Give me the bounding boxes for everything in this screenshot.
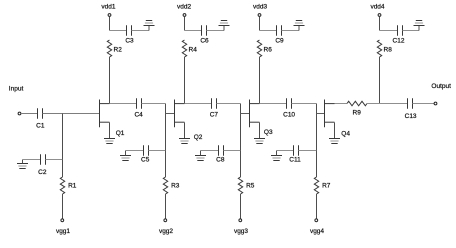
junction interstage node 1 vertical wire <box>165 104 167 151</box>
ground for C12 <box>414 21 425 26</box>
svg-text:vdd3: vdd3 <box>253 3 267 10</box>
wire C13 to output terminal <box>413 103 435 105</box>
wire vdd2 to node <box>184 17 186 31</box>
wire jog to Q3 gate <box>241 113 250 115</box>
wire jog to Q4 gate <box>317 113 325 115</box>
ground for C3 <box>144 21 155 26</box>
wire Q4 source drop <box>334 123 336 139</box>
wire ground stub C5 <box>125 151 127 156</box>
junction gate node 1 vertical wire <box>62 114 64 160</box>
svg-text:R1: R1 <box>68 182 77 189</box>
ground for C5 <box>120 156 131 161</box>
svg-text:Q4: Q4 <box>341 131 350 138</box>
wire node to C9 <box>260 30 277 32</box>
capacitor C12 <box>398 25 403 36</box>
ground at Q1 source <box>104 139 115 144</box>
wire vdd3 to node <box>259 17 261 31</box>
wire drain of Q3 to C10 <box>260 103 287 105</box>
svg-text:Input: Input <box>9 86 24 93</box>
wire C8 to gate node <box>224 150 241 152</box>
svg-text:Q1: Q1 <box>116 130 125 137</box>
ground for C2 <box>17 164 28 169</box>
junction interstage node 2 vertical wire <box>240 104 242 151</box>
svg-text:Q2: Q2 <box>194 134 203 141</box>
transistor Q1 <box>100 100 110 128</box>
transistor Q2 <box>175 100 185 128</box>
capacitor C7 <box>212 98 217 109</box>
svg-text:C13: C13 <box>405 113 417 120</box>
wire C5 to gate node <box>149 150 166 152</box>
svg-text:R5: R5 <box>246 182 255 189</box>
capacitor C10 <box>287 98 292 109</box>
svg-text:C2: C2 <box>38 169 47 176</box>
wire R2 to drain of Q1 <box>109 57 111 104</box>
transistor Q4 <box>325 100 335 128</box>
ground for C9 <box>294 21 305 26</box>
wire R8 to output node <box>379 57 381 104</box>
wire ground riser C6 <box>223 26 225 31</box>
svg-text:C3: C3 <box>125 37 134 44</box>
ground at Q2 source <box>179 139 190 144</box>
capacitor C4 <box>137 98 142 109</box>
port terminal vgg4 <box>315 219 318 222</box>
wire vdd1 to node <box>109 17 111 31</box>
wire ground to C8 <box>201 150 219 152</box>
port terminal vgg2 <box>164 219 167 222</box>
svg-text:R4: R4 <box>189 47 198 54</box>
svg-text:Q3: Q3 <box>264 129 273 136</box>
capacitor C9 <box>277 25 282 36</box>
wire gate node to R5 <box>240 151 242 178</box>
ground at Q3 source <box>254 139 265 144</box>
wire R6 to drain of Q3 <box>259 57 261 104</box>
port terminal vgg3 <box>239 219 242 222</box>
svg-text:R7: R7 <box>322 182 331 189</box>
wire ground riser C9 <box>298 26 300 31</box>
capacitor C6 <box>202 25 207 36</box>
transistor Q3 <box>250 100 260 128</box>
svg-text:vgg4: vgg4 <box>310 228 324 235</box>
wire jog to Q2 gate <box>166 113 175 115</box>
wire C1 to Q1 gate <box>43 113 100 115</box>
svg-text:C7: C7 <box>210 112 219 119</box>
wire Q3 source drop <box>259 123 261 139</box>
svg-text:vdd2: vdd2 <box>177 3 191 10</box>
resistor R4 <box>182 40 186 57</box>
port terminal vdd2 <box>183 14 186 17</box>
wire ground stub C11 <box>276 151 278 156</box>
port terminal vdd3 <box>258 14 261 17</box>
wire input to C1 <box>21 113 38 115</box>
wire C6 to ground stub <box>207 30 225 32</box>
svg-text:C1: C1 <box>36 122 45 129</box>
ground for C8 <box>195 156 206 161</box>
capacitor C13 <box>408 98 413 109</box>
wire C2 to gate node <box>46 159 63 161</box>
resistor R9 <box>347 101 367 106</box>
wire R1 to vgg1 <box>62 194 64 219</box>
svg-text:vgg2: vgg2 <box>159 228 173 235</box>
wire vdd4 to node <box>379 17 381 31</box>
wire C12 to ground stub <box>403 30 420 32</box>
capacitor C11 <box>294 145 299 156</box>
svg-text:C4: C4 <box>134 112 143 119</box>
wire drain of Q2 to C7 <box>185 103 212 105</box>
capacitor C3 <box>127 25 132 36</box>
wire ground to C5 <box>126 150 144 152</box>
port terminal vdd4 <box>378 14 381 17</box>
resistor R2 <box>107 40 111 57</box>
svg-text:R6: R6 <box>264 47 273 54</box>
wire R5 to vgg3 <box>240 194 242 219</box>
wire ground riser C3 <box>148 26 150 31</box>
ground for C11 <box>271 156 282 161</box>
wire gate node to R7 <box>316 151 318 178</box>
wire R4 to drain of Q2 <box>184 57 186 104</box>
resistor R3 <box>163 177 167 194</box>
capacitor C1 <box>38 108 43 119</box>
wire C9 to ground stub <box>282 30 300 32</box>
svg-text:Output: Output <box>431 83 451 90</box>
resistor R1 <box>60 177 64 194</box>
capacitor C5 <box>144 145 149 156</box>
ground at Q4 source <box>329 139 340 144</box>
wire Q2 source drop <box>184 123 186 139</box>
wire R9 to output node <box>367 103 408 105</box>
wire gate node to R3 <box>165 151 167 178</box>
capacitor C2 <box>41 154 46 165</box>
svg-text:R3: R3 <box>171 182 180 189</box>
resistor R7 <box>314 177 318 194</box>
svg-text:C8: C8 <box>216 157 225 164</box>
wire R7 to vgg4 <box>316 194 318 219</box>
resistor R5 <box>238 177 242 194</box>
wire ground stub C8 <box>200 151 202 156</box>
svg-text:vdd1: vdd1 <box>101 3 115 10</box>
svg-text:vdd4: vdd4 <box>370 3 384 10</box>
svg-text:R9: R9 <box>353 109 362 116</box>
svg-text:C12: C12 <box>393 37 405 44</box>
input port terminal <box>18 112 21 115</box>
wire node to C3 <box>110 30 127 32</box>
wire Q4 drain to R9 <box>335 103 348 105</box>
svg-text:vgg3: vgg3 <box>234 228 248 235</box>
svg-text:C9: C9 <box>275 37 284 44</box>
svg-text:vgg1: vgg1 <box>56 228 70 235</box>
wire C11 to gate node <box>299 150 317 152</box>
svg-text:C11: C11 <box>289 157 301 164</box>
wire C4 to interstage node 1 <box>142 103 166 105</box>
svg-text:C6: C6 <box>200 37 209 44</box>
resistor R6 <box>257 40 261 57</box>
output port terminal <box>434 102 437 105</box>
wire R3 to vgg2 <box>165 194 167 219</box>
wire C10 to interstage node 3 <box>292 103 317 105</box>
wire Q1 source drop <box>109 123 111 139</box>
junction interstage node 3 vertical wire <box>316 104 318 151</box>
wire C7 to interstage node 2 <box>217 103 241 105</box>
svg-text:C5: C5 <box>141 157 150 164</box>
svg-text:R2: R2 <box>114 47 123 54</box>
ground for C6 <box>219 21 230 26</box>
wire gate node to R1 <box>62 160 64 178</box>
wire drain of Q1 to C4 <box>110 103 137 105</box>
port terminal vdd1 <box>108 14 111 17</box>
wire ground stub C2 <box>22 160 24 164</box>
wire ground to C11 <box>277 150 294 152</box>
wire node to C6 <box>185 30 202 32</box>
wire ground to C2 <box>23 159 41 161</box>
wire node to C12 <box>380 30 398 32</box>
svg-text:C10: C10 <box>283 112 295 119</box>
resistor R8 <box>377 40 381 57</box>
wire ground riser C12 <box>418 26 420 31</box>
wire C3 to ground stub <box>132 30 150 32</box>
port terminal vgg1 <box>61 219 64 222</box>
svg-text:R8: R8 <box>384 47 393 54</box>
capacitor C8 <box>219 145 224 156</box>
